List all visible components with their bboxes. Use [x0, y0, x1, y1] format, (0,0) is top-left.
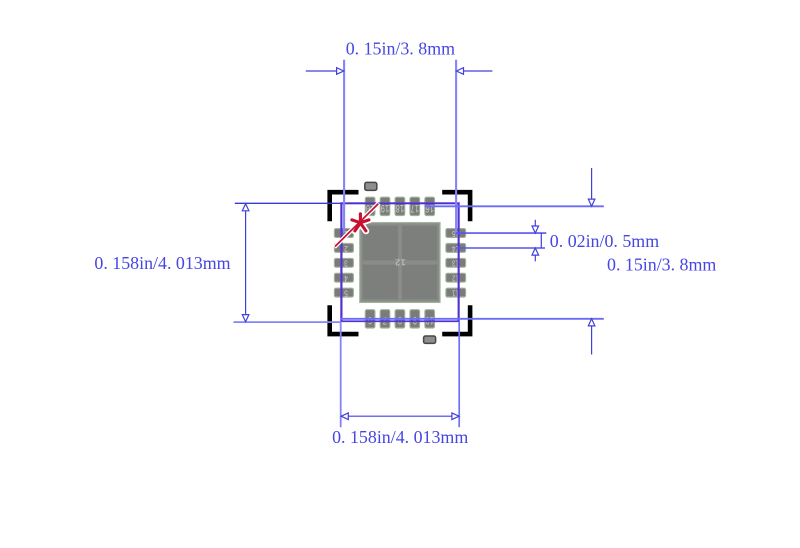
svg-text:5: 5: [344, 287, 348, 297]
pad 6: [365, 310, 375, 328]
corner bracket bottom-right: [442, 305, 472, 336]
top dimension extension line left: [343, 60, 345, 233]
pin 1 marker red asterisk: [352, 214, 369, 231]
svg-text:0. 02in/0. 5mm: 0. 02in/0. 5mm: [550, 231, 659, 251]
corner bracket top-right: [442, 190, 472, 221]
left dimension extension line bottom: [234, 321, 342, 323]
svg-text:0. 158in/4. 013mm: 0. 158in/4. 013mm: [94, 253, 230, 273]
pad 15: [446, 228, 466, 238]
pad 19: [380, 197, 390, 215]
pad 14: [446, 243, 466, 253]
0.5mm pitch dimension extension line B: [456, 247, 545, 249]
pad 12: [446, 273, 466, 283]
pad 11: [446, 287, 466, 297]
corner bracket top-left: [327, 190, 358, 221]
bottom dimension extension line right: [458, 322, 460, 428]
bottom dimension line with arrows: [341, 413, 459, 420]
corner bracket bottom-left: [327, 305, 358, 336]
pad 7: [380, 310, 390, 328]
pad 1: [334, 228, 353, 238]
top orientation marker pad: [365, 182, 377, 190]
pad 9: [410, 310, 420, 328]
left dimension line with arrows: [242, 204, 249, 322]
bottom orientation marker pad: [424, 336, 436, 343]
0.5mm pitch dimension extension line A: [456, 232, 546, 234]
pad 10: [425, 310, 435, 328]
0.5mm pitch dimension connector: [540, 233, 542, 248]
svg-text:4: 4: [344, 273, 348, 283]
top dimension line with arrows: [306, 68, 493, 75]
right 3.8mm dimension extension line top: [425, 205, 604, 207]
svg-text:0. 15in/3. 8mm: 0. 15in/3. 8mm: [346, 38, 455, 58]
pad 16: [425, 197, 435, 215]
svg-text:0. 15in/3. 8mm: 0. 15in/3. 8mm: [607, 255, 716, 275]
top dimension extension line right: [455, 60, 457, 234]
package outline blue rect: [342, 204, 458, 321]
pad 18: [395, 197, 405, 215]
svg-text:3: 3: [344, 258, 348, 268]
right 3.8mm dimension arrows: [588, 168, 595, 355]
pin 1 marker red line: [335, 204, 378, 247]
package outline purple rect: [341, 203, 459, 322]
pad 20: [365, 197, 375, 215]
svg-text:2: 2: [344, 243, 348, 253]
svg-text:12: 12: [395, 256, 406, 266]
pad 17: [410, 197, 420, 215]
pad 5: [334, 287, 353, 297]
svg-text:0. 158in/4. 013mm: 0. 158in/4. 013mm: [332, 427, 468, 447]
left dimension extension line top: [235, 202, 341, 204]
pad 8: [395, 310, 405, 328]
bottom dimension extension line left: [340, 322, 342, 428]
pad 3: [334, 258, 353, 268]
0.5mm pitch dimension arrows: [532, 220, 539, 261]
pad 2: [334, 243, 353, 253]
exposed pad EP pin 21: [360, 223, 440, 303]
right 3.8mm dimension extension line bottom: [341, 318, 604, 320]
pad 4: [334, 273, 353, 283]
pad 13: [446, 258, 466, 268]
pin 1 marker white casing: [334, 203, 379, 247]
